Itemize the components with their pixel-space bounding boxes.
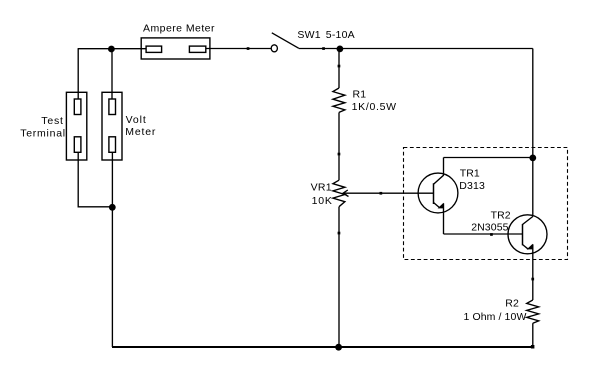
wire TR1 emitter to TR2 base: [444, 233, 523, 235]
solder dot on ammeter-switch wire: [247, 47, 250, 50]
wire volt meter bottom down to bottom rail: [111, 152, 113, 347]
svg-text:1 Ohm / 10W: 1 Ohm / 10W: [464, 311, 527, 323]
node junction right rail collector: [529, 155, 536, 162]
transistor TR1 circle: [418, 173, 458, 213]
wire volt meter vertical top: [111, 49, 113, 100]
wire R1 to VR1: [338, 112, 340, 180]
svg-text:SW1: SW1: [297, 29, 320, 41]
solder dot above R1: [338, 65, 341, 68]
wire switch to top-right corner: [299, 48, 533, 50]
volt meter lower contact: [109, 137, 116, 153]
transistor TR2 emitter arrow: [527, 244, 533, 250]
transistor TR1 emitter: [434, 203, 440, 208]
svg-text:R2: R2: [505, 298, 519, 310]
ammeter M1 box: [141, 38, 210, 59]
node junction top-left: [108, 46, 115, 53]
svg-text:R1: R1: [353, 88, 367, 100]
svg-text:D313: D313: [459, 180, 485, 192]
svg-text:Volt: Volt: [126, 114, 147, 126]
wire top-left horizontal rail: [78, 48, 146, 50]
node junction VR1 bottom: [335, 344, 342, 351]
svg-text:Test: Test: [41, 115, 63, 127]
transistor TR2 collector: [523, 217, 533, 225]
svg-text:10K: 10K: [312, 195, 333, 207]
potentiometer VR1 zigzag: [333, 180, 345, 207]
test terminal upper contact: [74, 99, 81, 115]
svg-text:1K/0.5W: 1K/0.5W: [352, 101, 397, 113]
solder dot on wiper wire: [380, 192, 383, 195]
switch SW1 lever: [272, 33, 299, 49]
svg-text:Terminal: Terminal: [20, 127, 66, 139]
volt meter M2 box: [102, 92, 122, 160]
test terminal TB1 box: [66, 92, 86, 160]
svg-text:2N3055: 2N3055: [471, 221, 508, 233]
node junction switch output: [337, 46, 344, 53]
test terminal lower contact: [74, 137, 81, 153]
transistor TR2 base bar: [522, 224, 524, 245]
transistor TR2 emitter: [523, 245, 529, 250]
switch SW1 contact circle: [271, 45, 277, 52]
wire ammeter right to switch: [206, 48, 271, 50]
wire mid rail node to R1: [338, 49, 340, 89]
svg-text:Meter: Meter: [125, 126, 156, 138]
wire TR1 collector to right rail: [444, 157, 533, 159]
transistor TR1 collector: [434, 158, 444, 185]
solder dot above R2: [531, 278, 534, 281]
wire left vertical test terminal top: [77, 49, 79, 100]
volt meter upper contact: [109, 99, 116, 115]
solder dot on TR2 base wire: [490, 233, 493, 236]
svg-text:TR1: TR1: [460, 168, 480, 180]
wire VR1 to bottom rail: [338, 207, 340, 347]
svg-text:5-10A: 5-10A: [326, 29, 355, 41]
transistor TR1 base bar: [433, 183, 435, 204]
svg-text:Ampere Meter: Ampere Meter: [143, 22, 215, 34]
ammeter right terminal: [189, 46, 205, 52]
solder dot after switch: [322, 47, 325, 50]
svg-text:VR1: VR1: [311, 182, 332, 194]
wire R2 to bottom rail: [532, 323, 534, 347]
node junction test terminal join: [109, 204, 116, 211]
potentiometer VR1 wiper arrow: [343, 192, 434, 194]
resistor R2 zigzag: [527, 300, 539, 323]
ammeter left terminal: [146, 46, 162, 52]
transistor TR1 emitter arrow: [438, 203, 444, 209]
wire test terminal bottom to join: [78, 152, 112, 207]
solder dot below VR1: [338, 232, 341, 235]
svg-text:TR2: TR2: [491, 210, 511, 222]
wire right rail upper segment: [532, 49, 534, 217]
solder dot between R1 and VR1: [338, 153, 341, 156]
resistor R1 zigzag: [333, 88, 345, 112]
transistor TR2 circle: [508, 215, 547, 254]
wire bottom rail: [112, 346, 533, 348]
dashed enclosure box: [404, 148, 568, 260]
solder dot bottom-right corner: [531, 345, 535, 349]
